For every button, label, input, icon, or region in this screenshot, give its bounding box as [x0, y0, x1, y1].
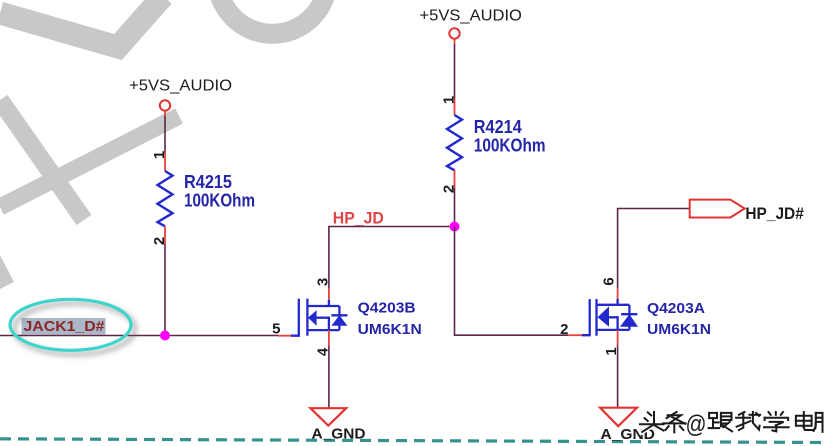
wire R4214 to junction HP_JD [454, 188, 456, 227]
wire drain up to port corner [618, 209, 690, 289]
border dashed bottom [0, 439, 824, 443]
node HP_JD junction dot [450, 222, 460, 232]
top bar (drain) [597, 304, 630, 306]
ground A_GND right [600, 408, 655, 443]
port HP_JD# [690, 200, 804, 223]
svg-text:2: 2 [560, 321, 568, 338]
watermark [0, 0, 328, 286]
bottom bar (source) [597, 329, 630, 331]
pin 6 wire (drain) [617, 288, 619, 299]
svg-text:3: 3 [315, 278, 332, 286]
junction dot JACK1_D#/R4215 [160, 331, 170, 341]
svg-text:+5VS_AUDIO: +5VS_AUDIO [420, 8, 522, 25]
channel [306, 299, 308, 336]
svg-text:UM6K1N: UM6K1N [358, 321, 422, 338]
substrate line [609, 317, 618, 330]
transistor Q4203A [568, 299, 638, 336]
svg-text:5: 5 [272, 321, 280, 338]
svg-text:1: 1 [441, 96, 458, 104]
pin 4 wire (source) [328, 330, 330, 346]
gate lead [582, 299, 590, 335]
svg-text:1: 1 [151, 151, 168, 159]
wire power to R4214 [454, 39, 456, 44]
svg-text:R4215: R4215 [184, 172, 232, 192]
drain stub [328, 300, 330, 306]
pin 1 of R4215 [164, 153, 166, 171]
svg-text:JACK1_D#: JACK1_D# [24, 318, 106, 335]
ground A_GND left [311, 408, 366, 442]
body diode triangle [331, 315, 347, 326]
body diode bar [331, 314, 347, 316]
logo watermark 头条 @跟我学电脑 [640, 411, 824, 439]
drain stub [616, 299, 618, 305]
svg-text:+5VS_AUDIO: +5VS_AUDIO [129, 78, 232, 95]
pin 2 red stub [568, 334, 582, 336]
svg-text:Q4203A: Q4203A [647, 300, 705, 317]
gate lead [291, 299, 299, 336]
right edge [338, 306, 340, 330]
resistor R4214 [447, 115, 462, 170]
svg-text:6: 6 [601, 277, 618, 285]
svg-text:HP_JD: HP_JD [333, 209, 384, 228]
right edge [628, 305, 630, 330]
pin 2 of R4214 [454, 170, 456, 188]
transistor Q4203B [278, 299, 347, 336]
body diode triangle [620, 314, 638, 327]
wire junction down to Q4203A gate [455, 227, 569, 336]
wire power to R4215 [164, 111, 166, 116]
svg-text:2: 2 [151, 237, 168, 245]
svg-text:100KOhm: 100KOhm [474, 136, 546, 156]
svg-text:Q4203B: Q4203B [358, 300, 416, 317]
svg-text:100KOhm: 100KOhm [184, 191, 255, 211]
substrate arrow [308, 310, 317, 326]
power symbol +5VS_AUDIO right [420, 8, 522, 39]
pin 5 red stub [278, 335, 291, 337]
highlight JACK1_D# [22, 318, 106, 335]
power symbol +5VS_AUDIO left [129, 78, 232, 111]
resistor R4215 [158, 171, 173, 226]
ellipse annotation [10, 299, 131, 350]
svg-text:@: @ [686, 411, 707, 439]
wire main JACK1_D# horizontal [0, 335, 278, 337]
pin 2 of R4215 [164, 226, 166, 244]
body diode bar [621, 313, 637, 315]
svg-text:HP_JD#: HP_JD# [745, 205, 803, 223]
pin 1 of R4214 [454, 99, 456, 115]
wire R4215 to junction [164, 244, 166, 336]
svg-text:UM6K1N: UM6K1N [647, 321, 711, 338]
top bar (drain) [307, 305, 339, 307]
wire source to ground [617, 346, 619, 408]
substrate arrow [598, 306, 609, 326]
pin 1 wire (source) [617, 330, 619, 346]
pin 3 wire (drain) [328, 288, 330, 300]
substrate line [317, 318, 329, 330]
svg-text:A_GND: A_GND [312, 426, 366, 443]
wire source to ground [328, 346, 330, 408]
svg-text:R4214: R4214 [474, 117, 522, 137]
bottom bar (source) [307, 329, 339, 331]
wire HP_JD horizontal to Q4203B drain [329, 227, 455, 291]
channel [595, 299, 597, 336]
